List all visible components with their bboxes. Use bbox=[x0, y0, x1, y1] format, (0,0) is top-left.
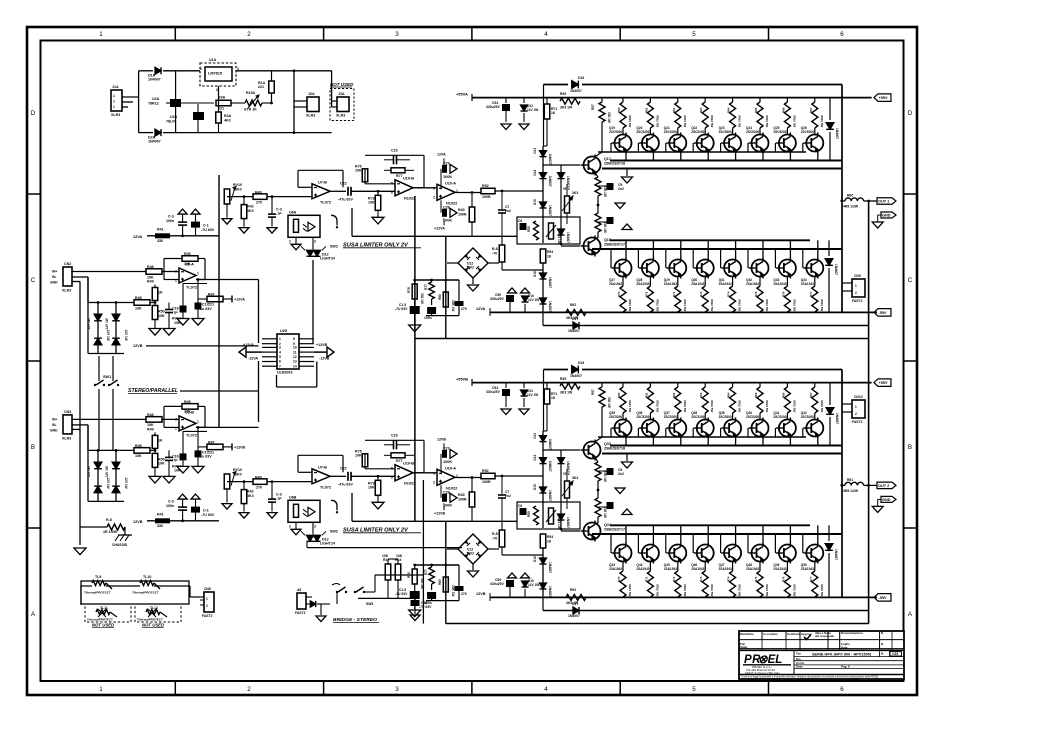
svg-text:R60: R60 bbox=[617, 107, 621, 113]
svg-text:3: 3 bbox=[395, 686, 399, 693]
svg-text:3K3: 3K3 bbox=[247, 494, 254, 498]
capacitor C50A 330u bbox=[506, 295, 514, 302]
svg-text:C8: C8 bbox=[518, 504, 522, 508]
capacitor C19A 270 bbox=[458, 280, 460, 301]
svg-text:100 1W: 100 1W bbox=[603, 471, 607, 482]
svg-text:R46: R46 bbox=[147, 265, 154, 269]
collector bus row1 a B bbox=[610, 445, 842, 447]
svg-text:330 1W: 330 1W bbox=[607, 397, 611, 408]
driver transistor Q33 2SD718 bbox=[543, 449, 584, 451]
capacitor C24B bias bbox=[520, 508, 527, 515]
wire limiter A vertical to bus bbox=[445, 236, 447, 338]
svg-text:N1022: N1022 bbox=[404, 196, 415, 200]
resistor R40B 2K2 bbox=[253, 479, 267, 485]
ground R42B bbox=[243, 504, 245, 512]
wire CN2 pin3 ground A bbox=[72, 281, 80, 283]
resistor R80B 10K bbox=[445, 565, 447, 577]
svg-text:2SA1943: 2SA1943 bbox=[719, 567, 732, 571]
svg-text:R49: R49 bbox=[147, 280, 154, 284]
svg-text:2: 2 bbox=[855, 291, 857, 295]
svg-text:D: D bbox=[31, 110, 36, 117]
base bus row1 B bbox=[598, 436, 806, 438]
svg-text:12VB: 12VB bbox=[476, 592, 486, 596]
svg-text:0R22 5W: 0R22 5W bbox=[683, 400, 687, 412]
wire trimmer to R1A bbox=[262, 102, 272, 104]
output transistor Q35 2SC5200 row1 B bbox=[615, 420, 632, 437]
capacitor C26B 2n2 bbox=[598, 470, 607, 472]
capacitor C11B electrolytic bbox=[191, 494, 200, 499]
svg-text:1: 1 bbox=[855, 405, 857, 409]
connector CN8 relay bbox=[204, 592, 214, 612]
svg-text:12VB: 12VB bbox=[133, 520, 143, 524]
svg-text:2SC5200: 2SC5200 bbox=[746, 415, 759, 419]
resistor R40A 2K2 bbox=[253, 194, 267, 200]
title block rows bbox=[739, 639, 904, 641]
resistor R45B 10K feedback bbox=[182, 404, 198, 410]
svg-text:TL072: TL072 bbox=[186, 286, 197, 290]
svg-text:GND: GND bbox=[882, 498, 891, 502]
svg-text:C: C bbox=[31, 277, 36, 284]
svg-text:2SB/2SD718: 2SB/2SD718 bbox=[604, 446, 625, 450]
switch hook SW2B bbox=[331, 500, 337, 510]
op-amp U10BA bbox=[378, 190, 395, 192]
svg-text:C28: C28 bbox=[443, 205, 450, 209]
wire PSU left vertical bbox=[138, 71, 140, 133]
svg-text:2: 2 bbox=[216, 88, 218, 92]
wire limiter chain B bbox=[227, 481, 253, 483]
svg-text:14: 14 bbox=[293, 364, 297, 368]
base bus row2 A bbox=[610, 239, 810, 241]
svg-text:330: 330 bbox=[157, 524, 163, 528]
svg-text:A5: A5 bbox=[297, 588, 301, 592]
capacitor C18B bbox=[271, 480, 274, 483]
svg-text:R52: R52 bbox=[482, 184, 489, 188]
svg-text:7: 7 bbox=[279, 364, 281, 368]
svg-text:R75: R75 bbox=[754, 291, 758, 297]
svg-text:12VA: 12VA bbox=[133, 235, 143, 239]
svg-text:Sostituito: Sostituito bbox=[787, 632, 801, 636]
block top edge wire A bbox=[544, 84, 569, 86]
svg-text:D14: D14 bbox=[533, 455, 537, 461]
svg-text:12: 12 bbox=[293, 355, 297, 359]
svg-text:D17: D17 bbox=[572, 602, 578, 606]
svg-text:+12VB: +12VB bbox=[316, 343, 328, 347]
svg-text:330 1W: 330 1W bbox=[420, 293, 424, 304]
svg-text:D16: D16 bbox=[578, 361, 584, 365]
diode ladder second column A bbox=[560, 165, 562, 244]
svg-text:R80: R80 bbox=[438, 579, 442, 585]
wire CN2 pin1 A bbox=[72, 271, 146, 273]
svg-text:10: 10 bbox=[293, 346, 297, 350]
svg-text:1N4007: 1N4007 bbox=[566, 232, 570, 243]
svg-text:VR3 100: VR3 100 bbox=[557, 232, 561, 245]
svg-text:U10-A: U10-A bbox=[445, 181, 456, 185]
driver transistor Q17 2SD718 bbox=[543, 164, 584, 166]
svg-text:CN8: CN8 bbox=[204, 587, 211, 591]
svg-text:0R22 5W: 0R22 5W bbox=[710, 400, 714, 412]
svg-text:11: 11 bbox=[293, 350, 297, 354]
resistor R58B 100 1W emitter upper bbox=[596, 459, 599, 463]
emitter resistor R70B row2 bbox=[622, 562, 624, 572]
resistor R76B 330 1W bbox=[414, 565, 416, 569]
svg-text:THermalPROTECT: THermalPROTECT bbox=[132, 591, 159, 595]
zener D11A bbox=[523, 98, 525, 103]
wire clamp bottom A bbox=[87, 277, 89, 354]
svg-text:D15: D15 bbox=[533, 199, 537, 205]
op-amp U10BB bbox=[378, 475, 395, 477]
resistor R50B 10K bbox=[154, 448, 156, 453]
connector J2A bbox=[307, 97, 319, 112]
svg-text:U10-A: U10-A bbox=[445, 466, 456, 470]
resistor R77A 3K3 1W bbox=[431, 280, 433, 282]
svg-text:0R22 5W: 0R22 5W bbox=[628, 299, 632, 311]
output transistor Q23 2SC5200 row1 A bbox=[724, 135, 741, 152]
svg-text:R47: R47 bbox=[208, 293, 215, 297]
svg-text:U7-B: U7-B bbox=[318, 465, 327, 469]
capacitor C17A electrolytic bbox=[197, 280, 199, 303]
svg-text:10K: 10K bbox=[368, 486, 375, 490]
resistor R76B 10K bbox=[362, 454, 368, 467]
emitter resistor R64A 0R22 5W bbox=[732, 98, 734, 102]
resistor R71B 1K bbox=[546, 383, 548, 389]
arrow right +12VB bbox=[327, 347, 334, 357]
svg-text:D15: D15 bbox=[533, 484, 537, 490]
resistor R45A 10K feedback bbox=[182, 256, 198, 262]
svg-text:R45: R45 bbox=[184, 252, 191, 256]
feedback loop U10BB bbox=[365, 468, 395, 470]
svg-text:W02: W02 bbox=[467, 552, 474, 556]
svg-text:0R22 5W: 0R22 5W bbox=[738, 299, 742, 311]
svg-text:100K: 100K bbox=[443, 175, 452, 179]
svg-text:C28: C28 bbox=[443, 490, 450, 494]
bias network box B bbox=[517, 502, 580, 529]
capacitor C16B 100n bbox=[431, 584, 433, 590]
wire limiter B vertical to bus bbox=[445, 521, 447, 623]
svg-text:3: 3 bbox=[279, 346, 281, 350]
svg-text:1N4007: 1N4007 bbox=[835, 413, 839, 424]
resistor R49A 1K bbox=[88, 302, 134, 304]
svg-text:100R: 100R bbox=[458, 497, 467, 501]
svg-text:LIGHT24: LIGHT24 bbox=[320, 257, 335, 261]
output transistor Q28 2SA1943 row2 A bbox=[652, 240, 654, 258]
capacitor C23B bbox=[393, 440, 395, 449]
svg-text:R74: R74 bbox=[727, 291, 731, 297]
svg-text:R71: R71 bbox=[644, 576, 648, 582]
svg-text:3K3: 3K3 bbox=[247, 209, 254, 213]
svg-text:R67: R67 bbox=[809, 107, 813, 113]
wire U2A output bbox=[196, 279, 259, 281]
svg-text:U1A: U1A bbox=[209, 58, 217, 62]
collector bus row2 B bbox=[592, 533, 842, 535]
svg-text:CN2: CN2 bbox=[64, 262, 71, 266]
svg-text:1: 1 bbox=[99, 686, 103, 693]
block top edge wire B bbox=[544, 369, 569, 371]
output transistor Q43 2SA1943 row2 B bbox=[625, 525, 627, 543]
svg-text:4: 4 bbox=[544, 686, 548, 693]
svg-text:10K: 10K bbox=[158, 462, 165, 466]
svg-text:B: B bbox=[908, 444, 912, 451]
resistor R35B 3K3 1W rail bbox=[560, 383, 580, 389]
emitter resistor R60A 0R22 5W bbox=[622, 98, 624, 102]
svg-text:10K: 10K bbox=[184, 262, 191, 266]
op-amp U7B TL072 bbox=[312, 469, 330, 484]
resistor R48A 10K bbox=[134, 300, 150, 306]
inductor R61B output bbox=[842, 484, 845, 486]
svg-text:+12VA: +12VA bbox=[434, 226, 445, 230]
resistor R46B 10K bbox=[146, 417, 162, 423]
output transistor Q44 2SA1943 row2 B bbox=[652, 525, 654, 543]
connector CN10 bbox=[852, 400, 865, 418]
LED D12A LIGHT bbox=[312, 237, 314, 249]
wire limiter A lower rail bbox=[352, 235, 517, 237]
ground bridge U13 channel B bbox=[468, 571, 479, 577]
wire regulator output bbox=[236, 70, 332, 72]
svg-text:LIGHT24: LIGHT24 bbox=[320, 542, 335, 546]
svg-text:+12VB: +12VB bbox=[434, 511, 446, 515]
wire CN2 pin2 A bbox=[72, 276, 88, 278]
ground bus row1 B bbox=[626, 454, 628, 462]
svg-text:78R12: 78R12 bbox=[148, 101, 159, 105]
svg-text:2SB/2SD718: 2SB/2SD718 bbox=[604, 161, 625, 165]
svg-text:D16: D16 bbox=[578, 76, 584, 80]
svg-text:N.: N. bbox=[881, 631, 884, 635]
svg-text:-70: -70 bbox=[492, 251, 497, 255]
svg-text:0R22 5W: 0R22 5W bbox=[738, 400, 742, 412]
svg-text:1: 1 bbox=[113, 94, 115, 98]
svg-text:R41: R41 bbox=[157, 513, 164, 517]
wire loop vertical lower bbox=[258, 361, 260, 422]
svg-text:100R: 100R bbox=[482, 480, 491, 484]
emitter resistor R61B 0R22 5W bbox=[649, 383, 651, 387]
svg-text:Pag. 8: Pag. 8 bbox=[841, 665, 850, 669]
ground RV10A bbox=[226, 204, 228, 218]
wire relays to connector bbox=[154, 585, 190, 587]
capacitor C22B 47u bbox=[330, 475, 346, 477]
wire regulator ground pin bbox=[218, 86, 220, 104]
emitter resistor R65B 0R22 5W bbox=[759, 383, 761, 387]
svg-text:FAST2: FAST2 bbox=[852, 420, 863, 424]
wire bias bottom A bbox=[502, 269, 543, 271]
resistor R13 bridge network bbox=[395, 564, 401, 580]
resistor R59A 100 1W emitter lower bbox=[597, 205, 599, 213]
svg-text:0R22 5W: 0R22 5W bbox=[765, 400, 769, 412]
svg-text:0R22 5W: 0R22 5W bbox=[820, 400, 824, 412]
resistor R4A 4K3 bbox=[218, 104, 220, 112]
buffer diode 100K lower B bbox=[442, 494, 447, 502]
svg-text:2SC5200: 2SC5200 bbox=[609, 415, 622, 419]
svg-text:R45: R45 bbox=[184, 400, 191, 404]
border zone tick dividers left bbox=[27, 193, 41, 195]
emitter resistor R63A 0R22 5W bbox=[704, 98, 706, 102]
svg-text:1N4007: 1N4007 bbox=[548, 205, 552, 216]
svg-text:R57: R57 bbox=[591, 104, 595, 110]
title block columns top bbox=[761, 631, 763, 650]
svg-text:C8: C8 bbox=[518, 219, 522, 223]
ground sense cluster A bbox=[414, 314, 416, 324]
supply rail A bbox=[472, 97, 872, 99]
emitter resistor R73B row2 bbox=[704, 562, 706, 572]
regulator U1A 7815 bbox=[200, 63, 236, 86]
ground optocoupler A bbox=[295, 237, 297, 244]
collector bus row1 b A bbox=[602, 168, 842, 170]
relay TL11 not used bbox=[85, 604, 131, 622]
svg-text:Data: Data bbox=[796, 665, 803, 669]
wire sense cluster top B bbox=[415, 564, 459, 566]
svg-text:0R22 5W: 0R22 5W bbox=[820, 299, 824, 311]
svg-text:R62: R62 bbox=[672, 392, 676, 398]
svg-text:R76: R76 bbox=[781, 576, 785, 582]
emitter resistor R72B row2 bbox=[677, 562, 679, 572]
svg-text:Data: Data bbox=[841, 645, 848, 649]
output transistor Q48 2SA1943 row2 B bbox=[762, 525, 764, 543]
output transistor Q37 2SC5200 row1 B bbox=[669, 420, 686, 437]
emitter resistor R74B row2 bbox=[732, 562, 734, 572]
svg-text:R64: R64 bbox=[727, 107, 731, 113]
diode D17A on feedback bus bbox=[573, 322, 579, 329]
trimmer RV10B 10K0 bbox=[224, 474, 230, 489]
svg-text:R72: R72 bbox=[672, 576, 676, 582]
LED D12B LIGHT bbox=[312, 522, 314, 534]
svg-text:5: 5 bbox=[692, 31, 696, 38]
arrow bus row2 A bbox=[626, 227, 628, 229]
output transistor Q24 2SC5200 row1 A bbox=[752, 135, 769, 152]
wire ladder to bus B bbox=[542, 595, 544, 611]
base bus row1 A bbox=[598, 151, 806, 153]
svg-text:J3A: J3A bbox=[338, 92, 345, 96]
svg-text:1N4007: 1N4007 bbox=[568, 329, 580, 333]
zener D19A 12V bbox=[522, 296, 529, 302]
wire U20 right loop bbox=[316, 362, 318, 388]
svg-text:2SA1943: 2SA1943 bbox=[609, 282, 622, 286]
wire bridge network top bbox=[387, 559, 389, 564]
svg-text:0R22 5W: 0R22 5W bbox=[655, 400, 659, 412]
capacitor C15B electrolytic bbox=[182, 431, 184, 453]
emitter resistor R67A 0R22 5W bbox=[814, 98, 816, 102]
emitter resistor R76A row2 bbox=[786, 277, 788, 287]
feedback loop U2A bbox=[164, 279, 179, 281]
svg-text:+55VB: +55VB bbox=[456, 377, 468, 382]
rail tag lower B bbox=[874, 594, 891, 602]
rail tag lower A bbox=[874, 309, 891, 317]
buffer diode 100K lower A bbox=[442, 209, 447, 217]
svg-text:2SC5200: 2SC5200 bbox=[691, 130, 704, 134]
svg-text:1N4007: 1N4007 bbox=[834, 264, 838, 275]
svg-text:N1022: N1022 bbox=[404, 481, 415, 485]
wire input ground rail bbox=[79, 282, 81, 546]
svg-text:XLR3: XLR3 bbox=[306, 114, 315, 118]
op-amp U10AB bbox=[413, 472, 437, 474]
resistor R40A 100R bbox=[471, 193, 473, 208]
sheet border inner frame bbox=[41, 41, 904, 682]
svg-text:100n: 100n bbox=[166, 219, 174, 223]
svg-text:-7U 63V: -7U 63V bbox=[201, 513, 215, 517]
svg-text:100 1W: 100 1W bbox=[603, 186, 607, 197]
svg-text:8: 8 bbox=[293, 337, 295, 341]
output tag OUTB bbox=[877, 482, 896, 489]
capacitor C11A electrolytic bbox=[191, 209, 200, 214]
svg-text:LM7815: LM7815 bbox=[208, 72, 223, 76]
svg-text:GND: GND bbox=[50, 281, 58, 285]
svg-text:SERIE HPX (HPX 900 - HPX1500): SERIE HPX (HPX 900 - HPX1500) bbox=[812, 653, 872, 657]
svg-text:R48: R48 bbox=[135, 444, 142, 448]
svg-text:0R22 5W: 0R22 5W bbox=[628, 400, 632, 412]
capacitor C16A 100n bbox=[431, 299, 433, 305]
collector bus row1 b B bbox=[602, 453, 842, 455]
arrow up mid B bbox=[622, 509, 632, 515]
output transistor Q36 2SC5200 row1 B bbox=[642, 420, 659, 437]
svg-text:10K 1W: 10K 1W bbox=[451, 585, 455, 596]
trimmer VR3B bias bbox=[549, 508, 554, 524]
transistor U2A 78R12 (black package) bbox=[175, 71, 177, 133]
svg-text:R77: R77 bbox=[424, 569, 428, 575]
svg-text:R62: R62 bbox=[570, 588, 576, 592]
svg-text:THermalPROTECT: THermalPROTECT bbox=[84, 591, 111, 595]
svg-text:C23: C23 bbox=[391, 433, 398, 437]
svg-text:R77: R77 bbox=[396, 174, 403, 178]
op-amp U2A TL072 bbox=[179, 268, 196, 283]
svg-text:D17: D17 bbox=[572, 317, 578, 321]
svg-text:13: 13 bbox=[293, 360, 297, 364]
sheet border outer frame bbox=[27, 27, 917, 695]
resistor R57A 330 1W collector bbox=[601, 98, 603, 102]
svg-text:1N4007: 1N4007 bbox=[566, 517, 570, 528]
svg-text:R64: R64 bbox=[727, 392, 731, 398]
svg-text:Approv.: Approv. bbox=[801, 632, 812, 636]
diode ladder lower B bbox=[540, 558, 547, 564]
svg-text:-12VB: -12VB bbox=[319, 357, 330, 361]
resistor R46A 10K bbox=[146, 269, 162, 275]
svg-text:SW1: SW1 bbox=[103, 375, 112, 379]
svg-text:-7P: -7P bbox=[276, 212, 282, 216]
capacitor C19B 270 bbox=[458, 565, 460, 586]
IC U20 bbox=[277, 334, 299, 369]
resistor R80A 10K bbox=[445, 280, 447, 292]
svg-text:Denominazione: Denominazione bbox=[841, 631, 863, 635]
svg-text:100R: 100R bbox=[458, 212, 467, 216]
svg-text:2SA1943: 2SA1943 bbox=[664, 567, 677, 571]
svg-text:221: 221 bbox=[208, 450, 214, 454]
svg-text:10K: 10K bbox=[382, 554, 389, 558]
collector bus row2 A bbox=[592, 248, 842, 250]
svg-text:0R22 5W: 0R22 5W bbox=[765, 115, 769, 127]
capacitor C15A -7U 63V bbox=[414, 299, 416, 306]
output transistor Q42 2SC5200 row1 B bbox=[806, 420, 823, 437]
svg-text:IN+: IN+ bbox=[52, 270, 57, 274]
svg-text:0R22 5W: 0R22 5W bbox=[792, 299, 796, 311]
feedback bus upper A bbox=[543, 325, 869, 327]
resistor R76A 330 1W bbox=[414, 280, 416, 284]
emitter resistor R77A row2 bbox=[814, 277, 816, 287]
svg-text:2SC5200: 2SC5200 bbox=[636, 415, 649, 419]
svg-text:10K0: 10K0 bbox=[233, 187, 242, 191]
output transistor Q39 2SC5200 row1 B bbox=[724, 420, 741, 437]
svg-text:12VB: 12VB bbox=[437, 437, 446, 441]
capacitor C13B 100n bbox=[181, 519, 184, 522]
svg-text:2SC5200: 2SC5200 bbox=[719, 415, 732, 419]
bias network box A bbox=[517, 217, 580, 244]
diode D16B top edge bbox=[572, 366, 579, 374]
svg-text:2: 2 bbox=[206, 604, 208, 608]
relay TL10 thermal bbox=[106, 585, 140, 587]
ground C18B bbox=[271, 502, 273, 512]
svg-text:Tav.: Tav. bbox=[796, 652, 802, 656]
svg-text:10K: 10K bbox=[135, 306, 142, 310]
svg-text:10K0: 10K0 bbox=[233, 472, 242, 476]
svg-text:100n: 100n bbox=[166, 504, 174, 508]
svg-text:270: 270 bbox=[256, 486, 262, 490]
resistor R52A 100R bbox=[481, 188, 495, 194]
svg-text:3: 3 bbox=[175, 417, 177, 421]
